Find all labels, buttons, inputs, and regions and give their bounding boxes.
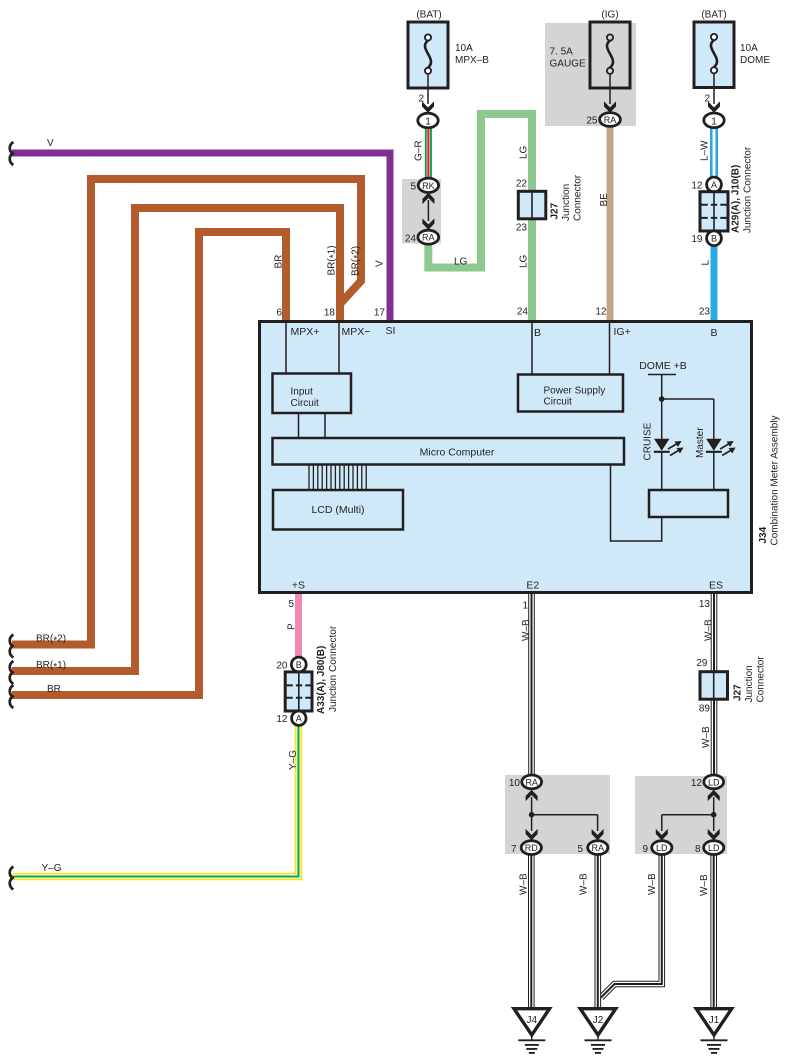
arrow down to 8 LD: [708, 829, 720, 840]
svg-text:25: 25: [586, 116, 598, 127]
svg-text:W–B: W–B: [647, 873, 658, 895]
shield box around connectors RK/RA (5/24): [402, 179, 441, 244]
LED CRUISE: [654, 439, 684, 456]
left-edge break BR(*1) + label: [10, 661, 14, 684]
svg-text:6: 6: [276, 308, 282, 319]
svg-text:1: 1: [522, 601, 528, 612]
shield box around fuse GAUGE (IG): [545, 23, 636, 126]
svg-text:Combination Meter Assembly: Combination Meter Assembly: [770, 415, 781, 545]
svg-text:10A: 10A: [740, 43, 758, 54]
svg-text:GAUGE: GAUGE: [550, 59, 586, 70]
junction dot: [711, 812, 717, 818]
svg-text:DOME: DOME: [740, 55, 770, 66]
svg-text:Connector: Connector: [756, 656, 767, 703]
svg-text:L: L: [701, 260, 712, 266]
connector 25 RA: [600, 113, 621, 127]
svg-text:DOME +B: DOME +B: [639, 360, 687, 372]
svg-text:G–R: G–R: [414, 140, 425, 161]
svg-text:Circuit: Circuit: [544, 397, 573, 408]
wire fuse DOME to connector 1, pin 2: [713, 74, 715, 105]
svg-text:W–B: W–B: [701, 726, 712, 748]
connector 10 RA: [522, 775, 542, 789]
svg-text:8: 8: [695, 844, 701, 855]
junction dot: [529, 812, 535, 818]
svg-text:ES: ES: [709, 580, 723, 592]
svg-text:LG: LG: [519, 254, 530, 268]
wire L (blue) from junction connector pin B to pin 23 B: [711, 243, 718, 322]
svg-text:RD: RD: [525, 843, 538, 853]
svg-text:Junction: Junction: [744, 665, 755, 702]
svg-text:24: 24: [405, 234, 417, 245]
svg-text:L–W: L–W: [700, 140, 711, 161]
svg-text:W–B: W–B: [519, 873, 530, 895]
wire BR(*2) from left-edge break, outer loop, diagonal merge into pin 18: [12, 179, 361, 645]
arrow up to 12 LD: [708, 790, 720, 801]
wire pin 18 to Input Circuit: [338, 323, 340, 374]
svg-text:RA: RA: [604, 115, 617, 125]
connector 5 RA: [588, 841, 608, 855]
ground J1: [696, 1009, 732, 1053]
svg-text:P: P: [287, 623, 298, 630]
svg-text:B: B: [534, 327, 541, 339]
svg-text:RA: RA: [592, 843, 605, 853]
wire W-B from connector 9 LD down and left, merging into J2 ground wire: [601, 853, 662, 998]
svg-text:W–B: W–B: [521, 619, 532, 641]
junction connector A33(A), J80(B) pin A: [292, 711, 306, 725]
svg-text:SI: SI: [386, 325, 396, 337]
svg-text:2: 2: [418, 94, 424, 105]
wire to Master LED: [713, 399, 715, 439]
left-edge break V: [10, 142, 14, 165]
svg-text:Micro Computer: Micro Computer: [420, 447, 495, 459]
svg-text:RA: RA: [422, 233, 435, 243]
fuse 10A MPX-B (BAT): [408, 10, 489, 89]
wire LG from connector 24 RA, loop up through J27 pin 22/23 to pin 24 B: [428, 114, 532, 322]
svg-text:LCD (Multi): LCD (Multi): [311, 504, 364, 516]
wire lamp driver box to Micro Computer: [611, 465, 662, 542]
svg-text:Input: Input: [291, 387, 313, 398]
junction connector A29(A), J10(B) pin A: [707, 177, 722, 192]
connector 5 RK: [418, 178, 438, 192]
svg-text:22: 22: [516, 179, 528, 190]
svg-text:V: V: [375, 260, 386, 267]
svg-text:Y–G: Y–G: [288, 750, 299, 770]
svg-text:E2: E2: [526, 580, 539, 592]
svg-text:17: 17: [374, 308, 386, 319]
svg-text:Master: Master: [695, 427, 706, 458]
combination meter assembly J34 main box: [260, 322, 752, 593]
svg-text:29: 29: [696, 658, 708, 669]
svg-text:24: 24: [517, 307, 529, 318]
wire Y-G (yellow/green) from junction connector pin A to left-edge break: [12, 722, 299, 877]
svg-text:(IG): (IG): [601, 10, 618, 21]
svg-text:1: 1: [711, 116, 717, 127]
svg-text:W–B: W–B: [704, 619, 715, 641]
arrow up to 10 RA: [526, 790, 538, 801]
svg-text:Junction Connector: Junction Connector: [743, 146, 754, 233]
svg-text:MPX+: MPX+: [291, 326, 320, 338]
svg-text:BR: BR: [47, 684, 61, 695]
svg-text:(BAT): (BAT): [701, 10, 726, 21]
svg-text:A29(A), J10(B): A29(A), J10(B): [731, 165, 742, 233]
svg-text:5: 5: [288, 599, 294, 610]
wire BR from left-edge break, inner loop, to pin 6 MPX+: [12, 232, 286, 695]
fuse 10A DOME (BAT): [694, 10, 770, 88]
wire DOME +B to junction: [661, 375, 663, 400]
wire 10 RA to junction: [531, 797, 533, 815]
wire W-B from connector 8 LD down to ground J1: [710, 853, 717, 1010]
wires LEDs to lamp driver box: [661, 451, 663, 490]
junction connector A33(A), J80(B) body: [285, 672, 312, 711]
svg-text:J27: J27: [550, 202, 561, 219]
svg-text:20: 20: [276, 661, 288, 672]
svg-text:12: 12: [691, 778, 703, 789]
arrow down to RA: [422, 218, 434, 229]
svg-text:MPX–B: MPX–B: [455, 55, 489, 66]
svg-text:9: 9: [642, 844, 648, 855]
svg-text:89: 89: [699, 704, 711, 715]
svg-text:18: 18: [324, 308, 336, 319]
Power Supply Circuit box: [518, 375, 623, 412]
svg-text:J2: J2: [593, 1015, 604, 1026]
svg-text:Power Supply: Power Supply: [544, 386, 606, 397]
svg-text:19: 19: [691, 234, 703, 245]
wire G-R (green/red) from connector 1 to connector 5 RK: [425, 124, 432, 180]
shield box around connectors 10 RA / 7 RD / 5 RA: [505, 775, 610, 854]
svg-text:Connector: Connector: [573, 174, 584, 221]
svg-text:12: 12: [691, 181, 703, 192]
svg-text:5: 5: [410, 182, 416, 193]
svg-text:BR: BR: [274, 255, 285, 269]
svg-text:LG: LG: [454, 257, 468, 268]
svg-text:V: V: [47, 138, 54, 149]
lamp driver box (unlabeled): [649, 490, 728, 517]
connector 1 (DOME): [704, 113, 724, 128]
junction connector A33(A), J80(B) pin B: [291, 657, 306, 672]
wire BE from connector 25 RA to pin 12 IG+: [607, 124, 614, 322]
svg-text:12: 12: [595, 307, 607, 318]
Micro Computer box: [273, 438, 625, 465]
connector 9 LD: [652, 841, 672, 855]
svg-text:BE: BE: [599, 193, 610, 207]
svg-text:Junction: Junction: [561, 184, 572, 221]
wire P (pink) from pin 5 +S to junction connector pin B: [295, 592, 302, 660]
wire pin 6 to Input Circuit: [285, 323, 287, 374]
wire to CRUISE LED: [661, 399, 663, 439]
left-edge break BR + label: [10, 685, 14, 708]
wires Input Circuit to Micro Computer: [298, 413, 300, 439]
svg-text:12: 12: [276, 714, 288, 725]
wire pin 24 to Power Supply Circuit: [531, 323, 533, 375]
svg-text:A: A: [296, 714, 302, 724]
wire fuse GAUGE to connector 25 RA: [609, 74, 611, 104]
arrow down to 7 RD: [526, 829, 538, 840]
svg-text:J34: J34: [758, 526, 769, 543]
wire W-B from pin 13 ES down through J27 pins 29/89 to connector 12 LD: [711, 592, 718, 776]
junction connector A29(A), J10(B) pin B: [707, 231, 722, 246]
svg-text:+S: +S: [292, 580, 305, 592]
arrow down to 9 LD: [656, 829, 668, 840]
connector 1 (MPX-B): [418, 113, 438, 128]
svg-text:J27: J27: [733, 684, 744, 701]
wire W-B from connector 5 RA down to ground J2: [594, 853, 601, 1010]
fuse 7.5A GAUGE (IG): [550, 10, 631, 89]
svg-text:RK: RK: [422, 181, 435, 191]
svg-text:23: 23: [516, 223, 528, 234]
LED Master: [706, 439, 736, 456]
svg-text:MPX−: MPX−: [342, 326, 371, 338]
svg-text:W–B: W–B: [579, 873, 590, 895]
connector 12 LD: [704, 775, 724, 789]
svg-text:LG: LG: [519, 145, 530, 159]
svg-text:LD: LD: [708, 843, 720, 853]
wire V (violet) from left-edge break to pin 17 SI: [12, 153, 390, 322]
wire W-B from connector 7 RD down to ground J4: [528, 853, 535, 1010]
svg-text:LD: LD: [708, 777, 720, 787]
connector 7 RD: [521, 841, 541, 855]
wire W-B from pin 1 E2 down to connector 10 RA: [528, 592, 535, 776]
wire junction to 9 LD branch: [662, 814, 714, 816]
svg-text:A33(A), J80(B): A33(A), J80(B): [316, 646, 327, 714]
ground J2: [580, 1009, 616, 1053]
wire fuse MPX-B to connector 1, pin 2: [427, 74, 429, 104]
svg-text:7. 5A: 7. 5A: [550, 47, 574, 58]
connector 8 LD: [704, 841, 724, 855]
svg-text:23: 23: [699, 307, 711, 318]
svg-text:Circuit: Circuit: [291, 398, 320, 409]
svg-text:2: 2: [704, 94, 710, 105]
left-edge break Y-G + label: [10, 867, 14, 890]
svg-text:RA: RA: [525, 777, 538, 787]
arrow down to 5 RA: [592, 829, 604, 840]
svg-text:B: B: [711, 234, 717, 244]
svg-text:LD: LD: [656, 843, 668, 853]
Input Circuit box: [273, 374, 352, 414]
wire junction to Master branch: [662, 398, 714, 400]
svg-text:B: B: [296, 660, 302, 670]
wire 12 LD to junction: [713, 797, 715, 815]
wire BR(*1) from left-edge break, middle loop, to pin 18 MPX-: [12, 208, 340, 671]
ground J4: [514, 1009, 550, 1053]
svg-text:Y–G: Y–G: [42, 863, 62, 874]
wire L-W (blue/white) from connector 1 to junction connector pin A: [710, 124, 718, 180]
svg-text:B: B: [711, 327, 718, 339]
svg-text:10: 10: [509, 778, 521, 789]
junction connector A29(A), J10(B) body: [700, 192, 728, 231]
junction dot: [659, 396, 665, 402]
LCD (Multi) box: [273, 490, 403, 530]
svg-text:IG+: IG+: [614, 326, 631, 338]
svg-text:1: 1: [425, 117, 431, 128]
svg-text:7: 7: [511, 844, 517, 855]
svg-text:13: 13: [699, 599, 711, 610]
wire RK to RA: [427, 200, 429, 221]
svg-text:(BAT): (BAT): [416, 10, 441, 21]
ribbon cable hatch between Micro Computer and LCD: [309, 465, 366, 490]
svg-text:A: A: [711, 180, 717, 190]
svg-text:J4: J4: [527, 1015, 538, 1026]
svg-text:5: 5: [577, 844, 583, 855]
arrow up to RK: [422, 193, 434, 204]
connector 24 RA: [418, 230, 439, 244]
wire junction to 5 RA branch: [532, 814, 598, 816]
svg-text:10A: 10A: [455, 43, 473, 54]
left-edge break BR(*2) + label: [10, 635, 14, 658]
svg-text:W–B: W–B: [699, 874, 710, 896]
svg-text:J1: J1: [709, 1015, 720, 1026]
svg-text:Junction Connector: Junction Connector: [328, 625, 339, 712]
shield box around connectors 12 LD / 9 LD / 8 LD: [635, 776, 727, 854]
wire pin 12 to Power Supply Circuit: [609, 323, 611, 375]
svg-text:CRUISE: CRUISE: [643, 422, 654, 460]
